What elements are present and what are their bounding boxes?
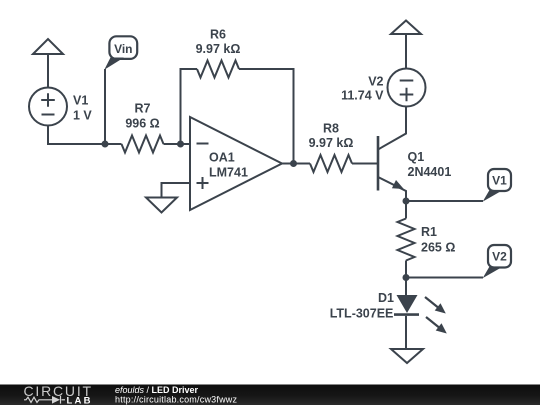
svg-text:V2: V2: [368, 75, 383, 89]
svg-text:2N4401: 2N4401: [408, 165, 452, 179]
svg-text:R7: R7: [135, 102, 151, 116]
svg-text:LTL-307EE: LTL-307EE: [330, 307, 394, 321]
svg-text:OA1: OA1: [209, 151, 235, 165]
svg-text:11.74 V: 11.74 V: [341, 88, 384, 102]
svg-text:D1: D1: [378, 291, 394, 305]
svg-text:LAB: LAB: [67, 395, 93, 405]
svg-text:265 Ω: 265 Ω: [421, 241, 455, 255]
svg-text:V1: V1: [492, 173, 507, 187]
svg-text:9.97 kΩ: 9.97 kΩ: [196, 42, 241, 56]
svg-text:Vin: Vin: [114, 42, 132, 56]
svg-text:Q1: Q1: [408, 150, 425, 164]
svg-text:http://circuitlab.com/cw3fwwz: http://circuitlab.com/cw3fwwz: [115, 395, 238, 405]
svg-text:R6: R6: [210, 27, 226, 41]
svg-text:R8: R8: [323, 121, 339, 135]
svg-text:9.97 kΩ: 9.97 kΩ: [309, 136, 354, 150]
svg-text:LM741: LM741: [209, 166, 248, 180]
svg-text:V2: V2: [492, 249, 507, 263]
svg-text:1 V: 1 V: [73, 108, 92, 122]
svg-text:R1: R1: [421, 225, 437, 239]
svg-text:V1: V1: [73, 93, 88, 107]
svg-text:996 Ω: 996 Ω: [125, 117, 159, 131]
